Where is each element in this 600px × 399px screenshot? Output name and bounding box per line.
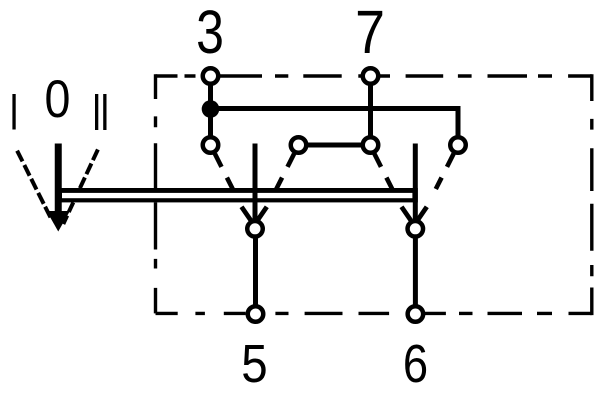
terminal 6 circle xyxy=(408,306,424,322)
label position II (second bar) xyxy=(103,94,106,130)
contact B circle xyxy=(291,137,307,153)
actuator arrow shaft xyxy=(55,144,62,213)
wire: terminal 7 down to contact C xyxy=(368,76,373,145)
dashed lever from contact B toward bridge xyxy=(276,154,294,189)
terminal 7 circle xyxy=(363,68,379,84)
fork contact mark above contact 6 xyxy=(402,207,427,221)
svg-text:0: 0 xyxy=(45,69,71,128)
svg-text:6: 6 xyxy=(403,333,428,394)
switch housing boundary (dash-dot), top side xyxy=(156,74,592,77)
terminal 3 circle xyxy=(203,68,219,84)
actuator bridge double bar (black band) xyxy=(56,188,418,202)
wire: terminal 3 down to contact A through junction xyxy=(208,76,213,145)
dashed travel line to position I xyxy=(17,151,50,218)
contact 6 circle xyxy=(408,221,424,237)
wire: right pole vertical through bridge to contact 6 xyxy=(413,144,418,229)
contact 5 circle xyxy=(247,221,263,237)
actuator bridge double bar (white gap stripe) xyxy=(62,193,412,198)
fork contact mark above contact 5 xyxy=(242,207,267,221)
label position I xyxy=(12,94,15,130)
switch housing boundary (dash-dot), left side xyxy=(154,74,157,313)
dashed lever from contact C toward bridge xyxy=(374,154,392,189)
svg-text:3: 3 xyxy=(196,0,224,66)
wire: corner drop to contact D xyxy=(456,106,461,145)
wire: left pole vertical through bridge to contact 5 xyxy=(253,144,258,229)
wire: junction to corner, horizontal run at y=108.5 xyxy=(211,106,459,111)
junction dot on terminal 3 wire xyxy=(202,100,220,118)
dashed travel line to position II xyxy=(63,150,98,225)
svg-text:7: 7 xyxy=(355,0,385,67)
svg-text:5: 5 xyxy=(241,333,267,394)
switch housing boundary (dash-dot), bottom side xyxy=(156,312,592,315)
wire: contact 5 down to terminal 5 xyxy=(253,229,258,314)
terminal 5 circle xyxy=(248,306,264,322)
switch housing boundary (dash-dot), right side xyxy=(590,74,593,315)
dashed lever from contact D toward bridge xyxy=(436,154,454,189)
actuator arrow head xyxy=(47,211,70,232)
label position II (first bar) xyxy=(95,94,98,130)
contact D circle xyxy=(450,137,466,153)
wire: link bar between contacts B and C xyxy=(299,143,371,148)
contact C circle xyxy=(363,137,379,153)
dashed lever from contact A toward bridge xyxy=(215,154,233,189)
contact A circle xyxy=(203,137,219,153)
wire: contact 6 down to terminal 6 xyxy=(413,229,418,314)
